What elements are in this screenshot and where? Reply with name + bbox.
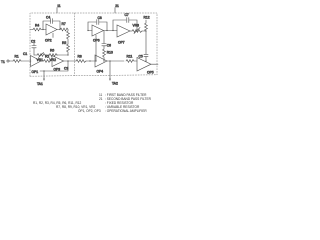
- svg-text:TA2: TA2: [112, 82, 118, 86]
- op-amp OP2: [46, 24, 57, 35]
- resistor R4: [30, 29, 33, 31]
- wire: [57, 54, 68, 56]
- svg-text:R11: R11: [127, 55, 133, 59]
- svg-text:C6: C6: [107, 44, 111, 48]
- wire input: [9, 60, 13, 62]
- variable resistor VR3: [132, 30, 142, 33]
- capacitor C8: [96, 20, 98, 25]
- wire feedback right: [129, 20, 137, 31]
- resistor R9 vertical: [67, 44, 70, 55]
- svg-text:21: 21: [99, 97, 103, 101]
- svg-text:R4: R4: [35, 24, 39, 28]
- dashed divider between filter sections: [74, 13, 76, 76]
- op-amp OP5: [137, 58, 151, 72]
- node O: [145, 60, 146, 61]
- wire OP3 out to divider: [64, 60, 77, 62]
- capacitor C7 feedback wire: [113, 20, 126, 31]
- op-amp OP4: [95, 55, 107, 67]
- svg-text:C1: C1: [23, 52, 27, 56]
- svg-text:R5: R5: [62, 41, 66, 45]
- svg-text:OP1, OP2, OP3: OP1, OP2, OP3: [78, 109, 101, 113]
- resistor R8: [76, 60, 86, 63]
- svg-text:C7: C7: [125, 13, 129, 17]
- svg-text:OP5: OP5: [147, 71, 154, 75]
- wire to OP5: [134, 60, 137, 62]
- svg-text:VR2: VR2: [50, 58, 57, 62]
- svg-text:OP1: OP1: [32, 70, 39, 74]
- wire into box: [21, 60, 31, 62]
- wire to OP4: [86, 60, 95, 62]
- node B: [59, 29, 60, 30]
- svg-text:C4: C4: [46, 16, 50, 20]
- lead line 11: [56, 8, 58, 14]
- wire R12 down: [145, 31, 147, 54]
- node G: [109, 60, 110, 61]
- dashed box filter 11/21 outline: [30, 13, 157, 76]
- svg-text:: OPERATIONAL AMPLIFIER: : OPERATIONAL AMPLIFIER: [105, 109, 147, 113]
- terminal TA1 drop: [43, 71, 45, 79]
- svg-text:OP2: OP2: [45, 39, 52, 43]
- variable resistor VR1: [37, 54, 45, 57]
- resistor R10: [103, 46, 106, 61]
- wire OP5 out: [151, 63, 158, 65]
- resistor R6: [49, 54, 57, 57]
- svg-text:R12: R12: [144, 16, 150, 20]
- svg-text:R7: R7: [62, 22, 66, 26]
- node A: [42, 29, 43, 30]
- resistor R11: [126, 60, 134, 63]
- op-amp OP6: [92, 25, 104, 36]
- wire OP1 out: [41, 60, 44, 62]
- node K: [95, 60, 96, 61]
- op-amp OP1: [31, 56, 42, 67]
- wire C5 down: [145, 57, 147, 61]
- lead line 21: [114, 8, 116, 14]
- capacitor C8 feedback wire: [88, 22, 96, 31]
- node D: [67, 60, 68, 61]
- node H: [87, 30, 88, 31]
- capacitor C4: [50, 19, 52, 24]
- wire OP6 in: [88, 30, 92, 32]
- svg-text:OP4: OP4: [97, 70, 104, 74]
- node L: [103, 60, 104, 61]
- wire feedback right: [53, 21, 60, 30]
- svg-text:C8: C8: [98, 16, 102, 20]
- svg-text:OP7: OP7: [118, 41, 125, 45]
- wire OP7 out: [130, 30, 132, 32]
- wire feedback right: [99, 22, 107, 31]
- capacitor C7: [126, 18, 128, 23]
- svg-text:TA1: TA1: [37, 82, 43, 86]
- node M: [136, 30, 137, 31]
- wire: [45, 54, 49, 56]
- node I: [106, 30, 107, 31]
- capacitor C2: [33, 43, 35, 46]
- svg-text:OP6: OP6: [93, 39, 100, 43]
- terminal T1: [7, 60, 9, 62]
- node J: [112, 30, 113, 31]
- resistor R1: [13, 60, 21, 63]
- node F: [89, 60, 90, 61]
- svg-text:R1: R1: [15, 55, 19, 59]
- terminal TA2 drop: [109, 61, 111, 79]
- capacitor C5: [144, 53, 148, 55]
- capacitor C6 line: [103, 31, 105, 44]
- resistor R2: [44, 60, 53, 63]
- svg-text:R6: R6: [50, 49, 54, 53]
- svg-text:C5: C5: [139, 55, 143, 59]
- svg-text:C3: C3: [64, 67, 68, 71]
- node E: [43, 70, 44, 71]
- node C2a: [57, 55, 58, 56]
- svg-text:C2: C2: [31, 40, 35, 44]
- resistor R7: [57, 28, 68, 31]
- wire OP4 out: [107, 60, 124, 62]
- svg-text:21: 21: [115, 4, 119, 8]
- svg-text:VR1: VR1: [37, 58, 44, 62]
- wire middle: [34, 54, 37, 56]
- node N: [145, 30, 146, 31]
- svg-text:VR3: VR3: [133, 24, 140, 28]
- capacitor C6: [102, 43, 106, 45]
- wire OP6 down: [95, 35, 97, 61]
- resistor R12 vertical: [145, 20, 148, 31]
- svg-text:R8: R8: [78, 55, 82, 59]
- op-amp OP3: [52, 56, 64, 67]
- wire to R12 line: [142, 30, 146, 32]
- wire plus input stub: [52, 33, 54, 37]
- resistor R5 vertical: [67, 30, 70, 45]
- svg-text:R10: R10: [107, 51, 113, 55]
- op-amp OP7: [117, 25, 130, 37]
- node C: [67, 54, 68, 55]
- capacitor C4 feedback wire: [43, 21, 51, 30]
- wire lower feedback: [40, 61, 68, 71]
- wire OP6 out: [104, 30, 118, 32]
- wire to OP2: [41, 29, 46, 31]
- svg-text:11: 11: [57, 4, 61, 8]
- svg-text:T1: T1: [1, 60, 5, 64]
